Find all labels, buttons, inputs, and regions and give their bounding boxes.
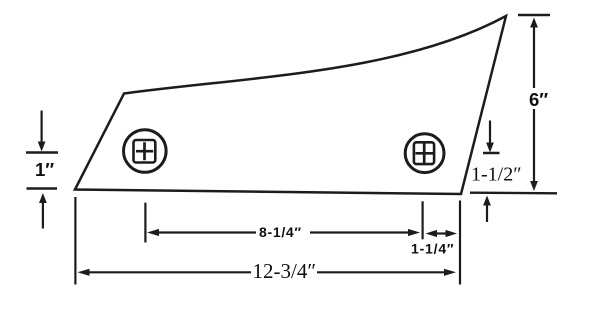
svg-text:1″: 1″	[35, 159, 54, 180]
svg-text:12-3/4″: 12-3/4″	[253, 259, 317, 283]
svg-text:1-1/2″: 1-1/2″	[471, 164, 522, 186]
svg-text:6″: 6″	[529, 89, 548, 110]
svg-text:8-1/4″: 8-1/4″	[259, 224, 302, 240]
svg-text:1-1/4″: 1-1/4″	[411, 241, 454, 257]
